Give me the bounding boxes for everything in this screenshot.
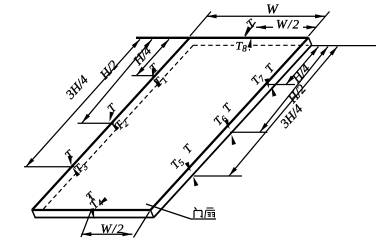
arrow T at T4 — [89, 194, 94, 220]
label H/2 (right) — [284, 81, 309, 107]
thickness edge NE corner — [309, 38, 312, 46]
arrow T1 — [153, 79, 161, 88]
label T (at T1) — [146, 60, 162, 76]
label H/4 (right) — [288, 60, 313, 86]
hidden left edge of bottom face (dashed) — [43, 45, 194, 210]
arrow T at top edge (T8 pair) — [244, 26, 251, 36]
label T2 — [112, 114, 131, 133]
extension line from SE corner (bottom) — [134, 212, 150, 238]
arrow T8 — [248, 38, 252, 51]
dimension line H/2 (left) — [82, 39, 152, 123]
arrow T5 — [193, 176, 198, 186]
arrow T at T7 — [264, 78, 269, 88]
extension line from top edge midpoint — [245, 22, 256, 36]
label 3H/4 (right) — [276, 101, 306, 131]
dimension line 3H/4 (left) — [26, 39, 140, 167]
label T (at T5) — [180, 141, 196, 156]
dimension line 3H/4 (right) — [229, 47, 338, 177]
arrow T3 — [73, 168, 81, 177]
label T3 — [71, 158, 90, 177]
label T5 — [168, 154, 187, 173]
label 3H/4 (left) — [62, 72, 92, 102]
svg-text:W/2: W/2 — [101, 221, 125, 236]
arrow T at T1 — [152, 68, 156, 78]
svg-text:W: W — [266, 3, 279, 18]
lower front edge (thickness) — [34, 217, 153, 219]
extension line from NE corner (top) — [309, 12, 330, 37]
dimension line H/4 (right) — [286, 47, 319, 85]
extension line at T2 — [78, 122, 114, 124]
dimension line W — [207, 14, 326, 18]
label W/2 (bottom) — [101, 221, 125, 236]
door leaf right edge — [151, 38, 309, 211]
label T (at T4) — [83, 188, 99, 204]
extension line at T3 — [24, 166, 75, 168]
thickness edge SW corner — [32, 210, 35, 218]
door leaf top edge — [136, 37, 309, 39]
thickness edge SE corner — [151, 210, 154, 218]
door leaf left edge — [32, 38, 190, 211]
arrow T7 — [272, 87, 277, 97]
dimension line H/2 (right) — [260, 47, 328, 133]
extension line from NW corner — [190, 12, 211, 37]
dimension line H/4 (left) — [136, 39, 169, 75]
label W/2 — [273, 17, 303, 32]
extension line at T7 — [268, 84, 295, 86]
label T (top centre) — [243, 16, 258, 32]
extension line at T1 — [132, 75, 156, 77]
label T (at T3) — [62, 146, 78, 162]
lower right edge (thickness) — [154, 45, 312, 218]
svg-text:W/2: W/2 — [276, 17, 300, 32]
dimension line W/2 — [256, 25, 317, 29]
label T4 — [87, 194, 106, 213]
label H/2 (left) — [96, 57, 121, 83]
dimension line W/2 (bottom) — [81, 232, 132, 236]
arrow T at T5 — [185, 162, 191, 172]
underline of 门扇 — [191, 218, 216, 220]
label T1 — [151, 71, 170, 90]
arrow T at T6 — [224, 119, 229, 129]
label T (at T6) — [220, 100, 236, 115]
label H/4 (left) — [129, 43, 154, 69]
arrow T6 — [232, 135, 236, 145]
extension line from NE corner (right reference) — [312, 45, 376, 47]
label 门扇 (door leaf) — [194, 207, 215, 218]
label T (at T7) — [262, 60, 278, 75]
arrow T at T2 — [110, 112, 114, 122]
label T7 — [248, 70, 267, 89]
label T (at T2) — [104, 100, 120, 116]
extension line at T5 — [194, 175, 242, 177]
leader line to door leaf — [146, 204, 191, 219]
label T8 — [234, 38, 249, 53]
label T6 — [211, 110, 230, 129]
door leaf bottom edge — [32, 209, 152, 211]
arrow T2 — [111, 123, 120, 131]
arrow T4 — [99, 197, 108, 205]
extension line at T6 — [230, 131, 267, 133]
extension line from bottom edge midpoint — [81, 211, 91, 237]
arrow T at T3 — [68, 156, 72, 166]
label W — [266, 3, 279, 18]
hidden back edge of bottom face (dashed) — [193, 44, 308, 46]
